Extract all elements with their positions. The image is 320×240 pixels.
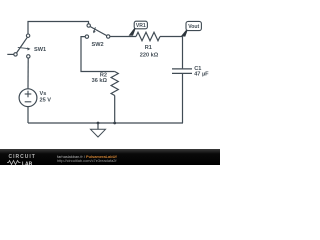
wire R1 to Vout node (160, 36, 183, 38)
footer CircuitLab logo (9, 154, 36, 160)
node junction at ground (97, 122, 100, 125)
svg-text:SW1: SW1 (34, 47, 46, 53)
switch SW2 (85, 24, 110, 48)
svg-text:VR1: VR1 (136, 23, 146, 29)
capacitor C1 (172, 66, 209, 78)
svg-text:R1: R1 (145, 45, 152, 51)
svg-text:SW2: SW2 (92, 42, 104, 48)
resistor R2 (92, 72, 119, 96)
wire bottom rail (28, 122, 183, 124)
svg-text:Vs: Vs (40, 91, 47, 97)
svg-text:Vout: Vout (188, 24, 199, 30)
node Vout (182, 21, 201, 36)
wire C1 to bottom rail (182, 74, 184, 123)
footer caption text (57, 155, 117, 164)
wire SW2 right to R1 (110, 36, 136, 38)
switch SW1 (7, 34, 46, 58)
wire Vout node to C1 (182, 37, 184, 69)
svg-text:LAB: LAB (22, 162, 33, 165)
svg-text:36 kΩ: 36 kΩ (92, 78, 108, 84)
svg-text:220 kΩ: 220 kΩ (140, 52, 159, 58)
ground (91, 123, 106, 137)
wire SW1 to Vs (27, 58, 29, 89)
footer watermark bar (0, 149, 220, 165)
wire top rail (28, 22, 89, 34)
svg-text:47 µF: 47 µF (194, 71, 209, 77)
resistor R1 (136, 32, 160, 58)
node junction at R2 bottom (113, 122, 116, 125)
voltage source Vs (19, 89, 51, 107)
node VR1 (130, 21, 147, 35)
wire Vs to bottom rail (27, 107, 29, 123)
svg-text:25 V: 25 V (40, 97, 52, 103)
wire R2 bottom (114, 96, 116, 124)
wire SW2 left to R2 top (81, 37, 115, 72)
